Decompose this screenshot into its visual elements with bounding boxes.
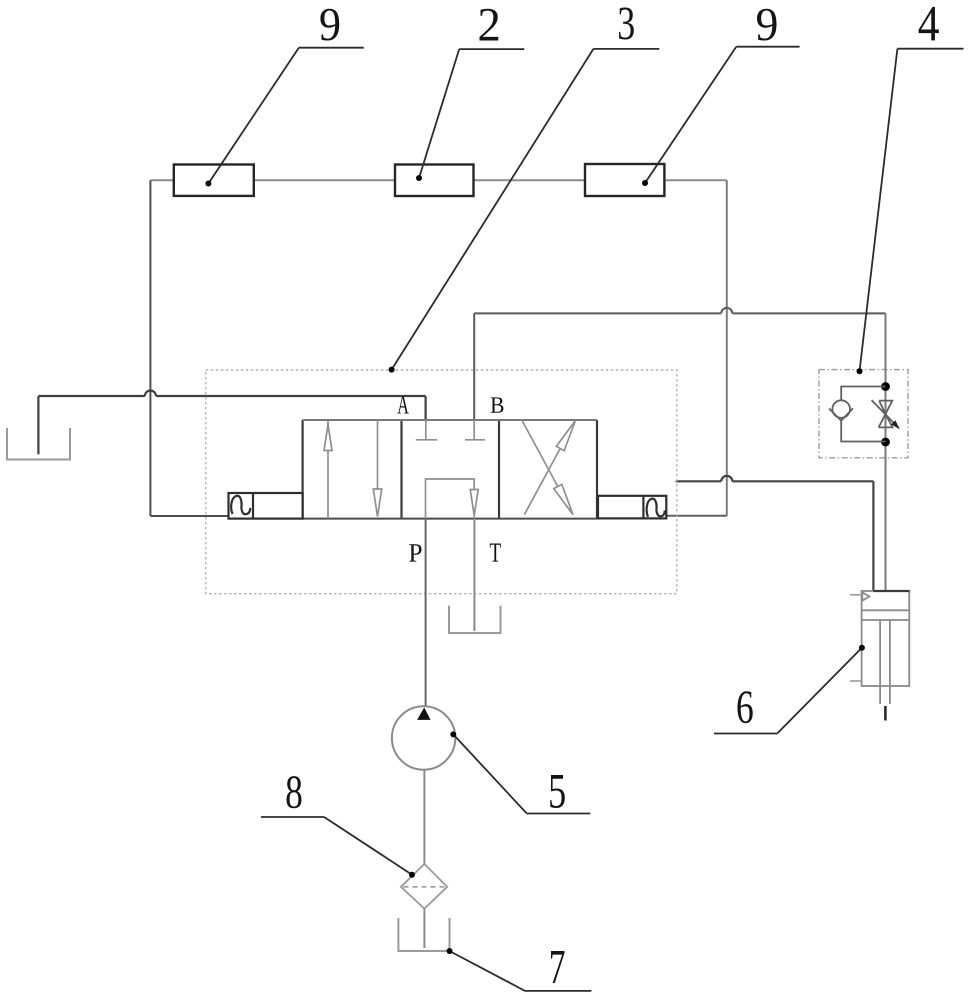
cylinder 6	[862, 591, 910, 704]
wire: left vertical drop x=150	[149, 180, 151, 516]
wire: to left solenoid y=516	[150, 515, 228, 517]
wire: throttle main line	[885, 313, 887, 591]
right solenoid with spring	[598, 496, 666, 519]
wire: tank line to port A y=396 with hop over x=150	[38, 391, 425, 455]
right position: crossed flow arrows	[522, 420, 575, 514]
wire: pump to filter	[423, 770, 425, 864]
port label B	[491, 397, 504, 412]
label 3	[619, 7, 634, 39]
wire: B-port rail y=313 with hop over x=727	[474, 308, 885, 420]
leader 3	[392, 49, 660, 370]
valve body bottom edge	[303, 518, 597, 520]
controller 2 box	[395, 165, 474, 197]
center position: blocked A/B, P to T	[416, 420, 485, 519]
junction node (top)	[881, 382, 890, 391]
wire: T line to tank	[473, 519, 475, 631]
leader 6	[714, 648, 862, 734]
wire: to right solenoid y=515.8	[666, 515, 727, 517]
leader 8	[261, 817, 412, 875]
valve body: 4/3 directional valve	[303, 420, 597, 519]
wire: cylinder line y=481 with hop over x=727	[676, 476, 874, 591]
port label T	[490, 544, 501, 562]
filter 8	[401, 864, 447, 909]
tank (T return reservoir)	[449, 606, 501, 633]
junction node (bottom)	[881, 438, 890, 447]
label 9 (left)	[320, 9, 339, 41]
label 2	[480, 9, 499, 41]
label 5	[550, 775, 565, 808]
leader 9 (right)	[645, 47, 800, 183]
port label P	[409, 544, 421, 561]
label 4	[919, 7, 939, 41]
rod end mark	[884, 706, 887, 721]
check valve branch	[829, 387, 886, 442]
sensor 9 (right) box	[585, 164, 664, 196]
wire: right vertical drop x=727	[726, 180, 728, 516]
leader 7	[450, 951, 592, 991]
label 6	[737, 691, 752, 723]
valve body top edge	[303, 419, 597, 421]
wire: top electric rail y=180	[150, 179, 726, 181]
one-way throttle valve 4 boundary	[819, 370, 908, 458]
leader 4	[860, 49, 964, 372]
dashed boundary of valve unit 3	[206, 370, 677, 594]
variable throttle symbol	[872, 400, 899, 428]
tank 7	[398, 918, 449, 951]
leader 9 (left)	[208, 48, 363, 184]
left solenoid with spring	[229, 493, 303, 519]
label 9 (right)	[757, 9, 776, 41]
sensor 9 (left) box	[174, 165, 254, 196]
pump 5	[392, 706, 455, 769]
wire: P line to pump	[425, 519, 427, 707]
label 8	[286, 776, 301, 808]
left position: parallel flow arrows	[324, 420, 382, 519]
leader 2	[419, 49, 524, 178]
leader 5	[453, 734, 590, 813]
label 7	[551, 951, 564, 983]
tank (left reservoir)	[7, 428, 70, 460]
port label A	[397, 396, 408, 414]
wire: filter to tank	[423, 909, 425, 948]
